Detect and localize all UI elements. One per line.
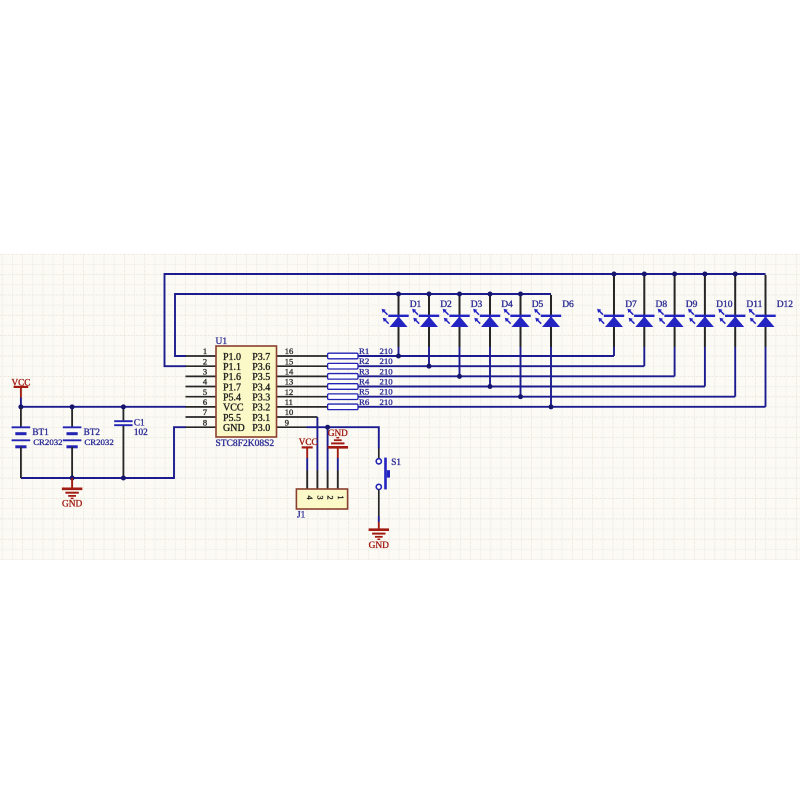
wire D9 column bbox=[674, 275, 676, 376]
wire D6 column bbox=[550, 295, 552, 407]
U1 pin 6 bbox=[186, 406, 217, 408]
resistor R1 210 bbox=[328, 346, 394, 359]
junction P3.0/J1 bbox=[325, 425, 330, 430]
svg-text:R1: R1 bbox=[359, 346, 369, 356]
U1 pin 9 bbox=[277, 426, 307, 428]
svg-text:J1: J1 bbox=[297, 510, 306, 520]
capacitor C1 102 bbox=[114, 408, 148, 478]
junction row R5/D5 bbox=[518, 394, 523, 399]
svg-text:S1: S1 bbox=[391, 457, 401, 467]
wire R1 output row to D1/D7 bbox=[358, 355, 614, 357]
wire D7 column bbox=[613, 275, 615, 356]
junction bus D4 bbox=[488, 292, 493, 297]
svg-text:R4: R4 bbox=[359, 377, 370, 387]
ground GND (below S1) bbox=[369, 522, 390, 551]
svg-text:5: 5 bbox=[203, 387, 207, 397]
wire D3 column bbox=[459, 295, 461, 376]
LED D5 bbox=[504, 300, 544, 327]
power VCC (J1) bbox=[299, 437, 318, 470]
LED D7 bbox=[597, 300, 637, 327]
LED D12 bbox=[749, 300, 794, 327]
ground GND (battery rail) bbox=[62, 478, 83, 509]
junction row R4/D4 bbox=[488, 384, 493, 389]
svg-text:BT2: BT2 bbox=[84, 427, 101, 437]
junction row R6/D6 bbox=[549, 404, 554, 409]
wire net P1.0 to upper LED bus bbox=[175, 294, 551, 356]
IC U1 STC8F2K08S2 bbox=[216, 337, 277, 449]
junction BT2 bottom bbox=[70, 476, 75, 481]
junction BT2 top bbox=[70, 404, 75, 409]
battery BT2 CR2032 bbox=[63, 408, 114, 478]
svg-text:D1: D1 bbox=[410, 300, 422, 310]
svg-text:D9: D9 bbox=[686, 300, 698, 310]
svg-text:D5: D5 bbox=[532, 300, 544, 310]
wire D12 column bbox=[765, 275, 767, 407]
wire D8 column bbox=[643, 275, 645, 366]
svg-text:D10: D10 bbox=[716, 300, 733, 310]
svg-text:3: 3 bbox=[203, 367, 207, 377]
wire D11 column bbox=[734, 275, 736, 397]
junction VCC/BT1 bbox=[18, 404, 23, 409]
svg-text:1: 1 bbox=[203, 346, 207, 356]
svg-text:210: 210 bbox=[380, 397, 394, 407]
svg-text:GND: GND bbox=[369, 541, 390, 551]
resistor R4 210 bbox=[328, 377, 394, 390]
svg-text:6: 6 bbox=[203, 397, 207, 407]
LED D2 bbox=[412, 300, 452, 327]
resistor R6 210 bbox=[328, 397, 394, 410]
wire GND rail bbox=[21, 427, 186, 478]
svg-text:9: 9 bbox=[285, 417, 289, 427]
svg-text:7: 7 bbox=[203, 407, 207, 417]
svg-text:16: 16 bbox=[285, 346, 294, 356]
svg-text:11: 11 bbox=[285, 397, 293, 407]
wire D5 column bbox=[520, 295, 522, 397]
U1 pin 12 bbox=[277, 396, 328, 398]
wire P3.1 to J1 pin 3 bbox=[316, 417, 318, 470]
LED D10 bbox=[688, 300, 733, 327]
junction bus D11 bbox=[733, 272, 738, 277]
resistor R3 210 bbox=[328, 366, 394, 379]
svg-text:D7: D7 bbox=[625, 300, 637, 310]
junction bus D5 bbox=[518, 292, 523, 297]
svg-text:210: 210 bbox=[380, 387, 394, 397]
svg-text:D12: D12 bbox=[777, 300, 794, 310]
LED D6 bbox=[534, 300, 574, 327]
LED D11 bbox=[718, 300, 762, 327]
junction bus D9 bbox=[672, 272, 677, 277]
U1 pin 13 bbox=[277, 386, 328, 388]
svg-text:U1: U1 bbox=[216, 337, 228, 347]
svg-text:12: 12 bbox=[285, 387, 294, 397]
wire D10 column bbox=[704, 275, 706, 387]
U1 pin 10 bbox=[277, 416, 318, 418]
svg-text:D4: D4 bbox=[501, 300, 513, 310]
svg-text:R2: R2 bbox=[359, 356, 369, 366]
wire VCC rail bbox=[21, 406, 186, 408]
U1 pin 16 bbox=[277, 355, 328, 357]
wire R3 output row to D3/D9 bbox=[358, 375, 675, 377]
svg-text:1: 1 bbox=[336, 495, 345, 499]
wire S1 to ground bbox=[378, 490, 380, 523]
svg-text:2: 2 bbox=[326, 495, 335, 499]
svg-text:CR2032: CR2032 bbox=[84, 437, 113, 447]
U1 pin 4 bbox=[186, 386, 217, 388]
svg-text:10: 10 bbox=[285, 407, 294, 417]
U1 pin 11 bbox=[277, 406, 328, 408]
U1 pin 3 bbox=[186, 375, 217, 377]
LED D3 bbox=[443, 300, 483, 327]
svg-text:D6: D6 bbox=[562, 300, 574, 310]
wire P3.0 to switch S1 bbox=[307, 427, 379, 448]
wire D2 column bbox=[428, 295, 430, 366]
U1 pin 5 bbox=[186, 396, 217, 398]
resistor R5 210 bbox=[328, 387, 394, 400]
U1 pin 8 bbox=[186, 426, 217, 428]
LED D1 bbox=[382, 300, 422, 327]
junction bus D1 bbox=[396, 292, 401, 297]
svg-text:VCC: VCC bbox=[299, 437, 318, 447]
svg-text:GND: GND bbox=[62, 499, 83, 509]
junction row R3/D3 bbox=[457, 374, 462, 379]
wire R4 output row to D4/D10 bbox=[358, 386, 705, 388]
junction bus D8 bbox=[642, 272, 647, 277]
svg-text:13: 13 bbox=[285, 377, 294, 387]
svg-text:STC8F2K08S2: STC8F2K08S2 bbox=[216, 439, 275, 449]
svg-text:D3: D3 bbox=[471, 300, 483, 310]
junction C1 top bbox=[121, 404, 126, 409]
svg-text:CR2032: CR2032 bbox=[33, 437, 62, 447]
junction bus D3 bbox=[457, 292, 462, 297]
svg-text:102: 102 bbox=[134, 427, 148, 437]
svg-text:210: 210 bbox=[380, 377, 394, 387]
U1 pin 7 bbox=[186, 416, 217, 418]
U1 pin 15 bbox=[277, 365, 328, 367]
svg-text:4: 4 bbox=[305, 495, 314, 499]
svg-text:210: 210 bbox=[380, 366, 394, 376]
battery BT1 CR2032 bbox=[12, 408, 63, 478]
resistor R2 210 bbox=[328, 356, 394, 369]
wire R5 output row to D5/D11 bbox=[358, 396, 735, 398]
svg-text:210: 210 bbox=[380, 346, 394, 356]
svg-text:D11: D11 bbox=[746, 300, 762, 310]
junction row R2/D2 bbox=[427, 364, 432, 369]
switch S1 bbox=[376, 449, 401, 490]
svg-text:3: 3 bbox=[315, 495, 324, 499]
U1 pin 2 bbox=[186, 365, 217, 367]
power VCC (battery rail) bbox=[11, 378, 30, 407]
svg-text:R5: R5 bbox=[359, 387, 370, 397]
wire net P1.1 to lower LED bus bbox=[165, 274, 766, 366]
svg-text:8: 8 bbox=[203, 417, 207, 427]
svg-text:R3: R3 bbox=[359, 366, 370, 376]
wire branch to J1 pin 2 bbox=[327, 427, 329, 470]
wire R2 output row to D2/D8 bbox=[358, 365, 644, 367]
svg-text:D2: D2 bbox=[440, 300, 452, 310]
svg-text:P3.0: P3.0 bbox=[252, 423, 270, 434]
junction C1 bottom bbox=[121, 476, 126, 481]
junction bus D10 bbox=[702, 272, 707, 277]
junction bus D7 bbox=[612, 272, 617, 277]
wire D1 column bbox=[398, 295, 400, 356]
junction bus D2 bbox=[427, 292, 432, 297]
svg-text:210: 210 bbox=[380, 356, 394, 366]
connector J1 bbox=[296, 471, 347, 520]
wire R6 output row to D6/D12 bbox=[358, 406, 766, 408]
svg-text:14: 14 bbox=[285, 367, 294, 377]
svg-text:2: 2 bbox=[203, 356, 207, 366]
LED D9 bbox=[658, 300, 698, 327]
wire D4 column bbox=[489, 295, 491, 387]
LED D4 bbox=[473, 300, 513, 327]
svg-text:D8: D8 bbox=[656, 300, 668, 310]
svg-text:15: 15 bbox=[285, 356, 294, 366]
U1 pin 1 bbox=[186, 355, 217, 357]
junction row R1/D1 bbox=[396, 354, 401, 359]
ground GND (J1, flipped) bbox=[328, 428, 349, 470]
svg-text:GND: GND bbox=[328, 428, 348, 438]
svg-text:GND: GND bbox=[223, 423, 245, 434]
svg-text:BT1: BT1 bbox=[32, 427, 49, 437]
svg-text:R6: R6 bbox=[359, 397, 370, 407]
LED D8 bbox=[627, 300, 667, 327]
U1 pin 14 bbox=[277, 375, 328, 377]
